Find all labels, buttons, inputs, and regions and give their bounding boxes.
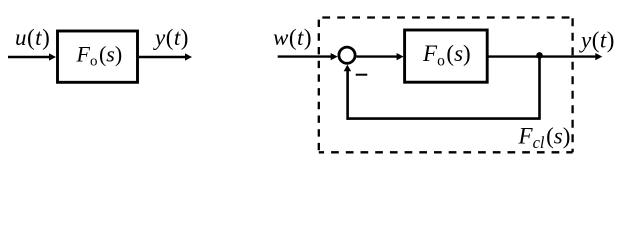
svg-text:u(t): u(t) bbox=[15, 25, 50, 50]
wire F_o block to output with branch node bbox=[488, 55, 597, 57]
wire feedback: up into summing junction bbox=[346, 71, 349, 120]
wire output arrow from F_o block bbox=[139, 56, 187, 59]
block F_o(s) open loop bbox=[58, 31, 138, 82]
wire summing junction to F_o block (closed loop) bbox=[356, 55, 398, 57]
wire feedback: bottom horizontal bbox=[348, 117, 541, 120]
minus sign at summing junction bbox=[356, 74, 368, 76]
svg-text:Fo(s): Fo(s) bbox=[422, 41, 471, 69]
svg-text:Fo(s): Fo(s) bbox=[76, 42, 123, 70]
wire input arrow to summing junction bbox=[278, 55, 333, 57]
summing junction circle bbox=[339, 47, 355, 63]
block F_o(s) closed loop bbox=[405, 30, 488, 82]
wire feedback: down from branch bbox=[538, 57, 541, 119]
dashed box F_cl boundary bbox=[319, 18, 573, 153]
svg-text:w(t): w(t) bbox=[273, 25, 312, 50]
wire input arrow to F_o block (open loop) bbox=[8, 56, 51, 59]
svg-text:y(t): y(t) bbox=[153, 25, 189, 50]
junction dot (branch point) bbox=[536, 52, 543, 59]
svg-text:y(t): y(t) bbox=[579, 27, 615, 52]
